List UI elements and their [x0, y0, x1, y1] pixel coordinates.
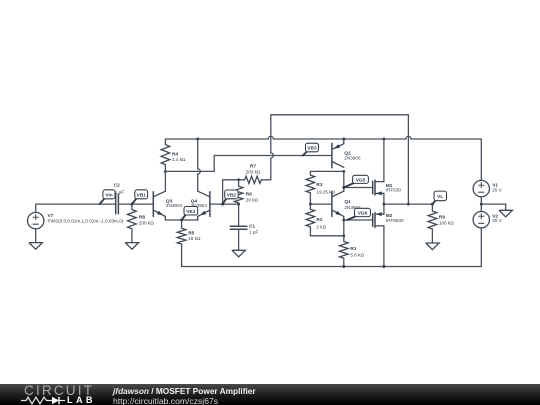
svg-text:1.4 kΩ: 1.4 kΩ	[172, 157, 186, 162]
svg-text:VB1: VB1	[137, 192, 147, 198]
svg-text:Vin: Vin	[105, 192, 112, 198]
svg-text:VG5: VG5	[356, 177, 366, 183]
svg-text:20 V: 20 V	[492, 218, 502, 223]
svg-text:R3: R3	[316, 182, 322, 188]
svg-text:5.6 kΩ: 5.6 kΩ	[350, 252, 364, 257]
svg-text:IRF9530: IRF9530	[386, 218, 404, 223]
svg-text:20 kΩ: 20 kΩ	[246, 197, 259, 202]
svg-text:PWS(0,0,0.01m,1,0.02m,-1,0.03m: PWS(0,0,0.01m,1,0.02m,-1,0.03m,0)	[48, 219, 124, 224]
svg-text:100 kΩ: 100 kΩ	[439, 220, 454, 225]
svg-text:1 µF: 1 µF	[249, 230, 259, 235]
svg-text:200 kΩ: 200 kΩ	[246, 169, 261, 174]
svg-text:1 µF: 1 µF	[115, 190, 125, 195]
svg-text:VG6: VG6	[358, 210, 368, 216]
svg-text:VL: VL	[437, 194, 443, 200]
svg-text:2 kΩ: 2 kΩ	[316, 225, 326, 230]
svg-text:R2: R2	[316, 217, 322, 223]
svg-text:20 V: 20 V	[492, 187, 502, 192]
svg-text:C2: C2	[114, 182, 120, 188]
svg-text:R1: R1	[350, 246, 356, 252]
svg-text:200 kΩ: 200 kΩ	[139, 220, 154, 225]
svg-text:18 kΩ: 18 kΩ	[188, 236, 201, 241]
svg-text:IRF530: IRF530	[386, 188, 402, 193]
svg-text:19.25 kΩ: 19.25 kΩ	[316, 189, 335, 194]
svg-text:VE1: VE1	[186, 209, 195, 215]
svg-text:2N3904: 2N3904	[166, 203, 183, 208]
svg-text:2N3906: 2N3906	[344, 156, 361, 161]
svg-text:VB2: VB2	[227, 192, 237, 198]
svg-text:VB3: VB3	[307, 146, 317, 152]
